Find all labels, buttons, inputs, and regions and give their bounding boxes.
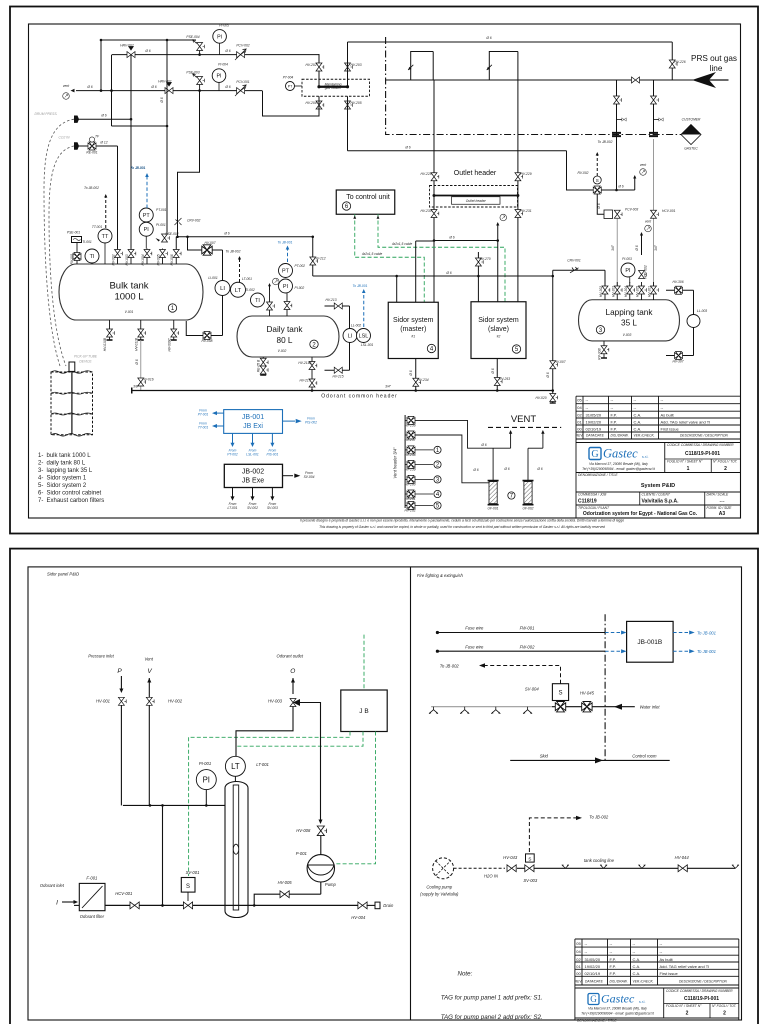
svg-text:UF-001: UF-001 (488, 507, 499, 511)
svg-text:FW-002: FW-002 (520, 644, 535, 649)
wire slave riser from vent line (497, 241, 499, 302)
title block (576, 395, 741, 397)
wire mid drop (162, 805, 164, 905)
valve HRV-001 (165, 88, 173, 94)
valve HV-002 (146, 697, 154, 705)
wire PRS main line y=80 (386, 79, 729, 81)
node drum press tee (130, 118, 133, 121)
svg-text:01: 01 (577, 419, 582, 424)
wire lower header y=150.75 (348, 150, 567, 152)
svg-text:(slave): (slave) (488, 326, 509, 333)
page 2 divider (410, 567, 412, 1020)
valve HV-302 (602, 286, 610, 294)
svg-text:1: 1 (687, 466, 690, 472)
wire daily riser 2 (286, 293, 288, 316)
svg-text:PI: PI (216, 74, 221, 80)
wire tank cooling line (534, 867, 678, 869)
svg-text:5-: 5- (38, 483, 43, 489)
svg-text:HV-008: HV-008 (296, 828, 311, 833)
svg-text:3/4": 3/4" (385, 385, 392, 389)
wire filter risers (492, 448, 494, 480)
wire vent-to-tank jog (111, 55, 113, 126)
junction box JB-002 (224, 464, 282, 487)
solenoid SV-001 (181, 878, 195, 893)
signal JB-001 left (216, 412, 224, 414)
svg-text:vent: vent (640, 163, 647, 167)
svg-text:F.P.: F.P. (611, 419, 617, 424)
valve HV-301 (651, 286, 659, 294)
svg-text:HV-212: HV-212 (314, 257, 325, 261)
signal JB-002 bottom (252, 488, 254, 498)
daily side loop (325, 305, 350, 307)
svg-text:80 L: 80 L (277, 336, 293, 345)
svg-text:HV-230: HV-230 (420, 209, 431, 213)
svg-text:C.A.: C.A. (634, 419, 642, 424)
lapping bottom valve (603, 341, 605, 358)
svg-text:HV-262: HV-262 (404, 509, 415, 513)
svg-text:--: -- (633, 949, 636, 954)
svg-text:Pump: Pump (325, 882, 337, 887)
pick-up tube drum dashed (51, 372, 93, 435)
svg-text:Gastec: Gastec (603, 447, 638, 461)
carbon filter UF-001 (489, 482, 497, 504)
svg-text:2: 2 (686, 1011, 689, 1017)
signal RV-002 up (596, 154, 598, 176)
wire slave feed riser (477, 252, 479, 302)
svg-text:3/8": 3/8" (133, 385, 140, 389)
svg-text:FOGLIO N° / SHEET N°: FOGLIO N° / SHEET N° (667, 460, 703, 464)
svg-text:VER./CHECK.: VER./CHECK. (634, 434, 655, 438)
svg-text:To JB-002: To JB-002 (589, 815, 609, 820)
page 1 inner drawing frame (29, 24, 741, 518)
svg-text:CRV-002: CRV-002 (187, 219, 201, 223)
valve HV-002 (115, 250, 123, 258)
svg-text:To control unit: To control unit (346, 194, 390, 201)
pump P-001 (307, 855, 334, 882)
svg-text:Ø 6: Ø 6 (409, 370, 413, 376)
svg-text:HV-003: HV-003 (268, 699, 283, 704)
signal JB-002 bottom (232, 488, 234, 498)
wire O outlet (292, 678, 294, 694)
valve HV-256 (407, 416, 415, 424)
svg-text:4-: 4- (38, 476, 43, 482)
svg-text:---: --- (720, 499, 725, 505)
svg-text:Sidor panel P&ID: Sidor panel P&ID (47, 572, 79, 577)
svg-text:Ø 6: Ø 6 (144, 49, 150, 53)
check CRV-001 (553, 269, 605, 271)
valve on main line (632, 77, 640, 83)
svg-text:GASTEC: GASTEC (684, 147, 698, 151)
svg-text:C118/19-PI-001: C118/19-PI-001 (684, 996, 719, 1002)
lapping top valves row (604, 282, 606, 300)
solenoid SV-004 (552, 684, 568, 701)
svg-text:C.A.: C.A. (633, 957, 641, 962)
wire odorant feed to daily y=236.75 (178, 236, 313, 238)
Sidor system slave box (471, 302, 526, 359)
LT stem (234, 776, 236, 782)
svg-text:HV-217: HV-217 (299, 379, 310, 383)
svg-text:LI: LI (220, 286, 225, 292)
svg-text:--: -- (585, 941, 588, 946)
valve HV-259 (407, 461, 415, 469)
svg-text:CODICE COMMESSA / DRAWING NUMB: CODICE COMMESSA / DRAWING NUMBER (666, 989, 733, 993)
svg-text:F.P.: F.P. (610, 964, 616, 969)
instrument LI-001 (215, 281, 230, 296)
svg-text:tank cooling line: tank cooling line (584, 858, 615, 863)
valve HV-016 (138, 378, 146, 386)
svg-text:P: P (117, 668, 122, 675)
fuse wire 2 (436, 650, 439, 653)
svg-text:Ø 6: Ø 6 (445, 271, 451, 275)
valve HV-005 (280, 891, 289, 898)
check valve loop2 (487, 65, 492, 70)
svg-text:System P&ID: System P&ID (641, 483, 675, 489)
carbon filter UF-002 (524, 482, 532, 504)
svg-text:HV-202: HV-202 (305, 63, 316, 67)
svg-text:LL-003: LL-003 (697, 309, 707, 313)
customer diamond symbol (681, 125, 701, 145)
valve PCV-002 (237, 52, 245, 58)
spray nozzle (562, 865, 569, 869)
ball valve branch1 (614, 96, 622, 104)
customer branch 1 x=616.5 (616, 80, 618, 190)
svg-text:04: 04 (576, 949, 581, 954)
signal green JB top (363, 635, 365, 690)
valve HRV-002 (127, 52, 135, 58)
PI-004 stem (218, 82, 220, 90)
wire drop to RV-002 line (567, 151, 635, 190)
svg-text:Ø 6: Ø 6 (503, 467, 509, 471)
svg-text:--: -- (586, 405, 589, 410)
wire daily top feed (312, 237, 314, 276)
valve HV-306 (675, 286, 683, 294)
svg-text:REV.: REV. (575, 980, 583, 984)
svg-text:To JB-001: To JB-001 (353, 284, 368, 288)
svg-text:TI: TI (255, 298, 260, 304)
svg-text:SV-004: SV-004 (525, 687, 539, 692)
svg-text:Ø 6: Ø 6 (100, 114, 106, 118)
svg-text:19/02/20: 19/02/20 (586, 419, 602, 424)
svg-text:bulk tank 1000 L: bulk tank 1000 L (47, 453, 92, 459)
signal JB-001 right (283, 420, 296, 422)
svg-text:HV-270: HV-270 (479, 257, 490, 261)
svg-text:PT-002: PT-002 (227, 453, 238, 457)
vent arrow left (71, 89, 75, 93)
instrument LI-003 (687, 315, 700, 328)
wire odorant supply line y=276 (313, 275, 553, 277)
check loop 2 (489, 52, 518, 81)
svg-text:HV-302: HV-302 (599, 286, 603, 297)
sprinkler (523, 707, 532, 714)
svg-text:CODICE COMMESSA / DRAWING NUMB: CODICE COMMESSA / DRAWING NUMBER (667, 443, 734, 447)
wire maintaining header drop x=319 (318, 54, 320, 87)
svg-text:H2O IN: H2O IN (484, 873, 499, 878)
svg-text:PT: PT (143, 213, 151, 219)
svg-text:gas header: gas header (325, 86, 342, 90)
lapping right loop (666, 289, 694, 291)
svg-text:TF: TF (95, 135, 100, 139)
svg-text:HV-043: HV-043 (503, 855, 518, 860)
svg-text:daily tank 80 L: daily tank 80 L (47, 461, 86, 467)
svg-text:TT-001: TT-001 (198, 426, 208, 430)
svg-text:LT-001: LT-001 (256, 762, 269, 767)
valve HV-226 top right (671, 42, 673, 80)
svg-text:Sidor system 1: Sidor system 1 (47, 476, 87, 482)
valve HV-304 (627, 286, 635, 294)
svg-text:JB-001: JB-001 (242, 414, 264, 421)
sprinkler (491, 707, 500, 714)
svg-text:02/10/19: 02/10/19 (585, 971, 601, 976)
svg-text:1-: 1- (38, 453, 43, 459)
valve HV-262 (407, 502, 415, 510)
svg-text:2-: 2- (38, 461, 43, 467)
valve RV-008 (203, 332, 211, 340)
vessel bulk tank V-001 (59, 264, 203, 320)
wire PSE-003 drop and daily-feed path (178, 91, 200, 237)
svg-text:4x2x1,5 cable: 4x2x1,5 cable (392, 242, 413, 246)
svg-text:HV-257: HV-257 (404, 438, 415, 442)
svg-text:LT-001: LT-001 (228, 506, 238, 510)
signal green cable to slave (378, 214, 505, 302)
svg-text:Sidor control cabinet: Sidor control cabinet (47, 491, 102, 497)
svg-text:RE-001: RE-001 (86, 151, 97, 155)
vent arrow slave (497, 224, 499, 241)
wire long vertical x=167 (166, 40, 168, 232)
svg-text:C.A.: C.A. (633, 971, 641, 976)
svg-text:--: -- (610, 949, 613, 954)
svg-text:HV-307: HV-307 (672, 360, 683, 364)
svg-text:PI-003: PI-003 (622, 257, 632, 261)
page 2 inner frame (28, 567, 742, 1020)
svg-text:HV-303: HV-303 (611, 286, 615, 297)
valve HV-261 (407, 490, 415, 498)
svg-text:HV-203: HV-203 (350, 63, 361, 67)
svg-text:To JB-002: To JB-002 (598, 140, 613, 144)
svg-text:LSL-001: LSL-001 (361, 343, 374, 347)
svg-text:LL-002: LL-002 (351, 324, 361, 328)
svg-text:vent: vent (645, 220, 652, 224)
svg-text:To JB-002: To JB-002 (440, 664, 460, 669)
svg-text:DIS./DRAW.: DIS./DRAW. (611, 434, 629, 438)
instrument PI-001 (196, 770, 216, 790)
svg-text:--: -- (660, 941, 663, 946)
svg-text:DESCRIZIONE / DESCRIPTION: DESCRIZIONE / DESCRIPTION (679, 980, 727, 984)
junction box JB-001 (224, 410, 283, 434)
svg-text:Ø 6: Ø 6 (223, 232, 229, 236)
svg-text:N° FOGLI / TOT.: N° FOGLI / TOT. (713, 460, 738, 464)
svg-text:Ø 6: Ø 6 (224, 49, 230, 53)
logo band (576, 442, 741, 444)
svg-text:Ø 12: Ø 12 (99, 141, 107, 145)
valve HV-214A (309, 362, 317, 370)
vent arrow at RV line end (634, 177, 636, 190)
valve HV-001 (118, 697, 126, 705)
svg-text:V: V (147, 668, 152, 675)
svg-text:G: G (591, 449, 598, 460)
svg-text:Odorant inlet: Odorant inlet (40, 883, 65, 888)
svg-text:HV-005: HV-005 (156, 254, 160, 265)
sprinkler (460, 707, 469, 714)
vessel daily tank V-002 (237, 316, 339, 357)
flow restrictor CRV-002 (175, 218, 182, 225)
svg-text:TAG for pump panel 2 add prefi: TAG for pump panel 2 add prefix: S2. (441, 1014, 543, 1021)
svg-text:HV-256: HV-256 (404, 423, 415, 427)
wire upper horizontal y=805.4 (123, 804, 225, 806)
svg-text:RV-008: RV-008 (202, 339, 213, 343)
svg-text:(supply by Valvitalia): (supply by Valvitalia) (420, 892, 459, 897)
svg-text:Tel (+39)0290098994 - email: g: Tel (+39)0290098994 - email: gastec@gast… (581, 1012, 655, 1016)
valve HV-009C (171, 329, 179, 337)
skid boundary dash-dot (386, 37, 688, 135)
svg-text:HV-305: HV-305 (636, 286, 640, 297)
valve HV-215 (334, 367, 342, 373)
sprinkler (429, 707, 438, 714)
svg-text:HV-045: HV-045 (580, 690, 595, 695)
wire vent route row2 (415, 435, 489, 483)
svg-text:Sidor system 2: Sidor system 2 (47, 483, 87, 489)
svg-text:HCV-001: HCV-001 (662, 209, 676, 213)
svg-text:V-002: V-002 (278, 349, 287, 353)
wire bottom main line (105, 904, 363, 906)
svg-text:VENT: VENT (511, 414, 537, 425)
svg-text:F.P.: F.P. (611, 426, 617, 431)
svg-text:PI: PI (203, 775, 210, 784)
svg-text:Gastec: Gastec (601, 992, 635, 1006)
svg-text:LT-001: LT-001 (242, 277, 252, 281)
svg-text:Pressure inlet: Pressure inlet (88, 654, 114, 659)
connector flag DRUM PRESS (74, 116, 79, 123)
cooling line (454, 867, 505, 869)
svg-text:HV-260: HV-260 (404, 482, 415, 486)
svg-text:--: -- (660, 949, 663, 954)
svg-text:05: 05 (576, 941, 581, 946)
svg-text:P-001: P-001 (296, 851, 307, 856)
svg-text:S: S (558, 691, 562, 697)
svg-text:Fire fighting & extinguish: Fire fighting & extinguish (417, 573, 464, 578)
signal to JB-001 from LSL (363, 292, 365, 327)
svg-text:Ø 6: Ø 6 (485, 36, 491, 40)
instrument PI-001 (139, 222, 153, 236)
wire V vent (148, 692, 150, 705)
svg-text:2: 2 (723, 1011, 726, 1017)
svg-text:#1: #1 (411, 335, 415, 339)
wire vertical x=101 (100, 40, 102, 91)
svg-text:Odorant outlet: Odorant outlet (277, 654, 304, 659)
svg-text:To JB-001: To JB-001 (278, 241, 293, 245)
svg-text:Ø 6: Ø 6 (491, 368, 495, 374)
svg-text:Fuse wire: Fuse wire (465, 644, 484, 649)
wire gray drop to header (140, 340, 142, 391)
svg-text:C.A.: C.A. (634, 426, 642, 431)
svg-text:O: O (290, 668, 295, 675)
svg-text:S: S (186, 884, 190, 890)
svg-text:Drain: Drain (383, 903, 394, 908)
svg-text:HV-011B: HV-011B (134, 337, 138, 351)
svg-text:PIS-001: PIS-001 (266, 453, 278, 457)
wire to HV-005/pump (253, 904, 256, 907)
svg-text:Daily tank: Daily tank (267, 325, 304, 334)
svg-text:TT-001: TT-001 (92, 225, 102, 229)
wire x=347.5 top riser (347, 42, 349, 87)
svg-text:RV-001: RV-001 (70, 253, 74, 264)
svg-text:DATA/DATE: DATA/DATE (585, 980, 604, 984)
svg-text:TI: TI (90, 254, 95, 260)
svg-text:DIS./DRAW.: DIS./DRAW. (610, 980, 628, 984)
valve HV-258 (407, 446, 415, 454)
instrument TI-002 (251, 293, 265, 307)
svg-text:PSE-002: PSE-002 (165, 232, 178, 236)
valve HV-044 (678, 865, 687, 872)
svg-text:DATA/DATE: DATA/DATE (586, 434, 605, 438)
svg-text:HV-205: HV-205 (350, 101, 361, 105)
svg-text:J B: J B (359, 708, 368, 715)
valve HV-003 (128, 250, 136, 258)
bulk tank top valves row (117, 249, 119, 265)
wire vent line y=240.5 (434, 240, 498, 242)
valve HV-010B (107, 329, 115, 337)
Gastec logo (589, 448, 601, 461)
svg-text:Skid: Skid (540, 754, 549, 759)
relief valve PSE-004 (199, 51, 201, 55)
instrument PT-001 (139, 208, 153, 222)
svg-text:Ø 6: Ø 6 (160, 97, 164, 103)
vent arrow daily (269, 284, 271, 290)
level column vessel (225, 782, 248, 918)
svg-text:Sidor system: Sidor system (478, 317, 519, 324)
wire daily riser 1 (269, 290, 271, 316)
svg-text:HV-001: HV-001 (96, 699, 110, 704)
PRS out gas line arrow (692, 72, 716, 88)
svg-text:s.r.l.: s.r.l. (639, 1000, 645, 1004)
valve SV-004 body (555, 702, 565, 712)
wire master second riser (416, 240, 434, 242)
svg-text:line: line (710, 64, 723, 73)
svg-text:HV-228: HV-228 (420, 172, 431, 176)
svg-text:DENOMINAZIONE / TITLE: DENOMINAZIONE / TITLE (578, 473, 618, 477)
svg-text:HV-007: HV-007 (554, 360, 565, 364)
svg-text:PI-005: PI-005 (219, 24, 229, 28)
svg-text:--: -- (661, 405, 664, 410)
svg-text:To JB-002: To JB-002 (226, 250, 241, 254)
svg-text:Outlet header: Outlet header (454, 170, 497, 177)
valve HV-204 (316, 101, 324, 109)
svg-text:G: G (590, 994, 597, 1004)
svg-text:--: -- (610, 941, 613, 946)
svg-text:CO2 IN: CO2 IN (59, 136, 71, 140)
svg-text:HV-301: HV-301 (648, 286, 652, 297)
svg-text:HV-003: HV-003 (125, 254, 129, 265)
page 1 sheet border (10, 7, 758, 534)
signal JB-002 bottom (271, 488, 273, 498)
svg-text:3-: 3- (38, 468, 43, 474)
svg-text:Valvitalia S.p.A.: Valvitalia S.p.A. (642, 499, 680, 505)
svg-text:COMMESSA / JOB: COMMESSA / JOB (578, 493, 607, 497)
svg-text:SV-003: SV-003 (523, 878, 537, 883)
valve HV-231 (515, 210, 523, 218)
svg-text:--: -- (585, 949, 588, 954)
signal JB-001 bottom (271, 433, 273, 444)
svg-text:lapping tank 35 L: lapping tank 35 L (47, 468, 93, 474)
wire HCV line (653, 139, 655, 286)
svg-text:PT-001: PT-001 (198, 413, 209, 417)
pressure control PCV-003 (604, 210, 613, 219)
svg-text:UF-002: UF-002 (523, 507, 534, 511)
svg-text:Ø 6: Ø 6 (150, 85, 156, 89)
svg-text:TAG for pump panel 1 add prefi: TAG for pump panel 1 add prefix: S1. (441, 995, 543, 1002)
spray nozzle (732, 865, 739, 869)
svg-text:Note:: Note: (458, 971, 473, 978)
svg-text:Ø 6: Ø 6 (135, 359, 139, 365)
